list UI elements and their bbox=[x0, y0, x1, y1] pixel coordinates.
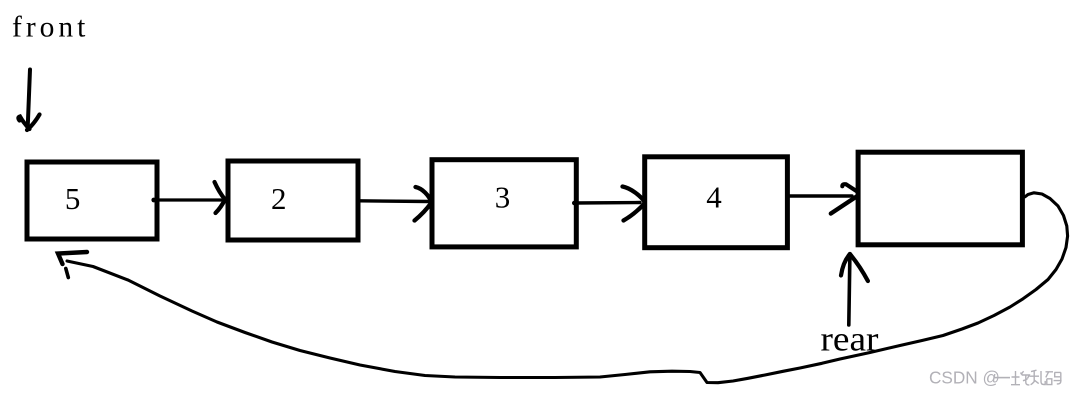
watermark glyph 坨 bbox=[1011, 371, 1029, 385]
node box 2 bbox=[228, 161, 358, 240]
arrowhead into box 2 bbox=[215, 182, 226, 213]
arrowhead into box 4 bbox=[623, 187, 646, 221]
svg-text:CSDN @: CSDN @ bbox=[929, 368, 1000, 388]
wire circular link from box5 back to box1 bbox=[67, 193, 1068, 383]
svg-text:5: 5 bbox=[65, 181, 81, 216]
watermark glyph 乱 bbox=[1030, 370, 1046, 385]
wire box4 to box5 bbox=[788, 194, 852, 197]
svg-text:3: 3 bbox=[495, 180, 511, 215]
svg-text:4: 4 bbox=[706, 180, 722, 215]
svg-text:2: 2 bbox=[271, 181, 287, 216]
node box 1 bbox=[27, 162, 157, 239]
arrowhead into box 5 bbox=[831, 184, 858, 213]
watermark glyph 码 bbox=[1046, 372, 1062, 385]
watermark glyph 一 bbox=[994, 377, 1010, 379]
node box 4 bbox=[645, 157, 788, 248]
wire box3 to box4 bbox=[572, 201, 640, 206]
wire box1 to box2 bbox=[151, 198, 221, 203]
arrow front pointer bbox=[18, 70, 39, 131]
wire box2 to box3 bbox=[359, 199, 429, 203]
node box 3 bbox=[432, 160, 576, 247]
svg-text:front: front bbox=[12, 11, 89, 43]
arrowhead into box 3 bbox=[415, 187, 432, 221]
node box 5 (empty rear node) bbox=[858, 152, 1022, 245]
arrow rear pointer bbox=[841, 254, 868, 325]
arrowhead of circular link at box 1 bbox=[58, 252, 87, 278]
